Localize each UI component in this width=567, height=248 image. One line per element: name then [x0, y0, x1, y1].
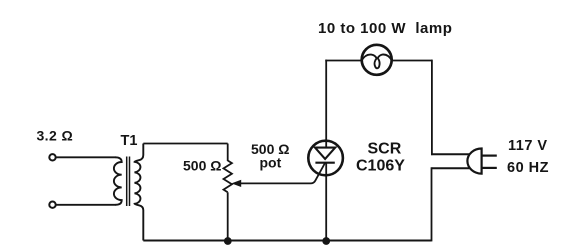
wire SCR anode up to top rail [325, 60, 327, 148]
pot wiper arrowhead [231, 180, 241, 187]
svg-text:T1: T1 [121, 133, 138, 149]
transformer T1 secondary winding [135, 144, 144, 241]
terminal bottom (speaker input -) [49, 202, 55, 208]
wire pot bottom vertical [227, 192, 229, 240]
potentiometer 500 ohm resistive element (zigzag) [224, 161, 232, 193]
SCR envelope circle [308, 141, 343, 176]
svg-text:3.2 Ω: 3.2 Ω [37, 128, 74, 144]
junction node A (pot / bottom rail) [224, 237, 232, 245]
wire right side upper vertical [431, 60, 433, 156]
svg-text:60 HZ: 60 HZ [507, 160, 549, 176]
wire top rail right segment [392, 60, 432, 62]
svg-text:117 V: 117 V [508, 138, 548, 154]
transformer T1 primary winding [114, 157, 122, 205]
SCR triangle (anode-cathode) [315, 148, 335, 159]
svg-text:500 Ω: 500 Ω [183, 158, 221, 174]
wire top rail left segment [325, 60, 361, 62]
lamp circle [362, 45, 392, 75]
transformer T1 core [127, 157, 130, 207]
plug prong top [483, 155, 497, 157]
wire to plug top [431, 153, 470, 155]
svg-text:C106Y: C106Y [356, 158, 405, 175]
svg-text:pot: pot [260, 154, 282, 170]
svg-text:10 to 100 W lamp: 10 to 100 W lamp [318, 20, 452, 37]
wire terminal top to T1 primary [57, 156, 117, 158]
svg-text:SCR: SCR [368, 141, 402, 158]
wire right side lower vertical [431, 167, 433, 241]
terminal top (speaker input +) [49, 154, 55, 160]
plug P1 body [467, 149, 481, 174]
wire SCR cathode down to bottom rail [325, 163, 327, 241]
junction node B (SCR cathode / bottom rail) [322, 237, 330, 245]
lamp filament loop [362, 55, 392, 69]
wire bottom rail [143, 240, 431, 242]
wire secondary top to pot top [143, 143, 227, 145]
wire to plug bottom [432, 167, 471, 169]
plug prong bottom [483, 167, 497, 169]
wire pot top vertical [227, 144, 229, 162]
wire wiper to SCR gate [240, 163, 326, 183]
SCR cathode bar [315, 162, 334, 164]
wire terminal bottom to T1 primary [57, 204, 117, 206]
